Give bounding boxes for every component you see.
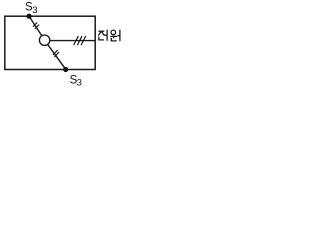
glyph 원 : eo vowel [119,30,121,42]
svg-text:3: 3 [32,5,37,16]
break marks on lower diagonal [53,50,59,57]
wire: lower diagonal from lamp to S3 bottom [48,45,66,70]
glyph 전 : nieun [99,37,104,40]
break marks on horizontal wire (3 slashes) [74,36,86,45]
break marks on upper diagonal [33,23,39,29]
lamp circle [39,35,49,45]
wire: upper diagonal from S3 to lamp [29,17,42,36]
switch node S3 top (dot) [27,14,32,19]
switch node S3 bottom (dot) [63,67,68,72]
glyph 원 : u bar + stem [110,35,117,37]
glyph 원 : ieung circle [111,30,116,35]
svg-text:3: 3 [77,78,82,87]
glyph 원 : nieun final [111,38,117,41]
glyph 전 : jieut [98,30,104,32]
label 전원 (power) : hand drawn glyphs [98,30,120,42]
glyph 전 : eo vowel [106,30,108,41]
wire: outer rectangle loop [5,16,95,69]
wire: horizontal from lamp to power (right edge) [50,40,95,42]
